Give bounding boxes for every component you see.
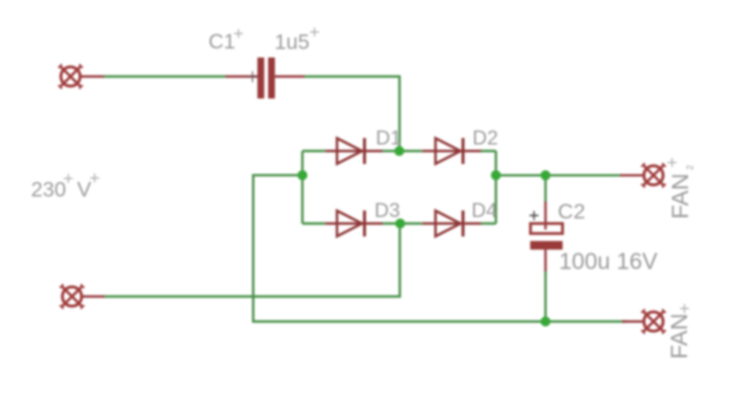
capacitor C2 top plate (531, 224, 563, 234)
wire from right node to FAN+ terminal (496, 174, 620, 176)
wire from bottom-left terminal to bridge bottom node (105, 224, 400, 297)
cross near FAN bottom (680, 304, 689, 313)
svg-text:D4: D4 (472, 200, 498, 222)
terminal X2 (230V bottom) (60, 284, 84, 308)
svg-text:C2: C2 (558, 200, 585, 224)
label D4 (472, 200, 498, 222)
label D1 (376, 128, 402, 150)
junction node bridge bottom (395, 219, 405, 229)
label 230 V (31, 178, 92, 202)
junction node bridge top (394, 146, 404, 156)
terminal X1 (230V top) (58, 64, 82, 88)
svg-text:V: V (77, 178, 92, 202)
capacitor C2 bottom plate (530, 241, 562, 250)
terminal X3 pin (620, 174, 645, 176)
label FAN top (rotated) (667, 173, 693, 219)
svg-text:C1: C1 (209, 31, 236, 54)
value 1u5 (275, 31, 310, 54)
capacitor C1 left lead (226, 75, 258, 77)
label D3 (375, 200, 401, 222)
terminal X4 (FAN-) (641, 309, 665, 333)
svg-text:D2: D2 (473, 128, 499, 150)
svg-text:FAN: FAN (666, 313, 692, 359)
value 100u 16V (559, 248, 658, 274)
label D2 (473, 128, 499, 150)
diode D1 (337, 138, 365, 164)
junction node C2 bottom (541, 317, 551, 327)
cross after 230 (64, 174, 73, 183)
diode D4 lead (422, 222, 481, 224)
terminal X1 pin (79, 75, 104, 77)
svg-text:100u 16V: 100u 16V (559, 248, 658, 274)
wire top from left terminal to C1 (104, 75, 226, 77)
junction node bridge left (297, 170, 307, 180)
wire bridge left side (301, 151, 303, 224)
diode D3 lead (325, 222, 382, 224)
terminal X3 (FAN+) (641, 163, 665, 187)
capacitor C2 top lead (544, 202, 546, 224)
svg-text:FAN: FAN (667, 173, 693, 219)
wire bridge right side (495, 151, 497, 224)
cross after C1 (234, 29, 243, 38)
diode D2 lead (422, 150, 481, 152)
cross after V (90, 174, 99, 183)
junction node bridge right (491, 170, 501, 180)
wire bridge top rail (302, 150, 496, 152)
svg-text:D3: D3 (375, 200, 401, 222)
capacitor C1 right lead (275, 75, 305, 77)
small mark near FAN top (685, 165, 695, 170)
cross after 1u5 (310, 28, 319, 37)
wire from left node down and across to bottom-right terminal (253, 175, 627, 321)
wire bridge bottom rail (302, 222, 496, 224)
C2 plus sign (530, 211, 539, 220)
label FAN bottom (rotated) (666, 313, 692, 359)
junction node C2 top (541, 170, 551, 180)
capacitor C1 origin cross (247, 71, 258, 82)
terminal X4 pin (622, 320, 645, 322)
label C2 (558, 200, 585, 224)
diode D2 (436, 138, 464, 164)
diode D4 (436, 211, 464, 237)
svg-text:2: 2 (685, 165, 695, 170)
cross near FAN top (668, 158, 677, 167)
label C1 (209, 31, 236, 54)
terminal X2 pin (80, 295, 105, 297)
svg-text:1u5: 1u5 (275, 31, 310, 54)
wire from C1 to bridge top node (305, 77, 400, 152)
capacitor C1 plates (257, 58, 275, 99)
wire C2 bottom to bottom rail (544, 272, 546, 322)
svg-text:230: 230 (31, 179, 66, 202)
capacitor C2 bottom lead (544, 250, 546, 272)
wire C2 top tap (544, 175, 546, 201)
diode D1 lead (325, 150, 382, 152)
svg-text:D1: D1 (376, 128, 402, 150)
diode D3 (337, 211, 365, 237)
